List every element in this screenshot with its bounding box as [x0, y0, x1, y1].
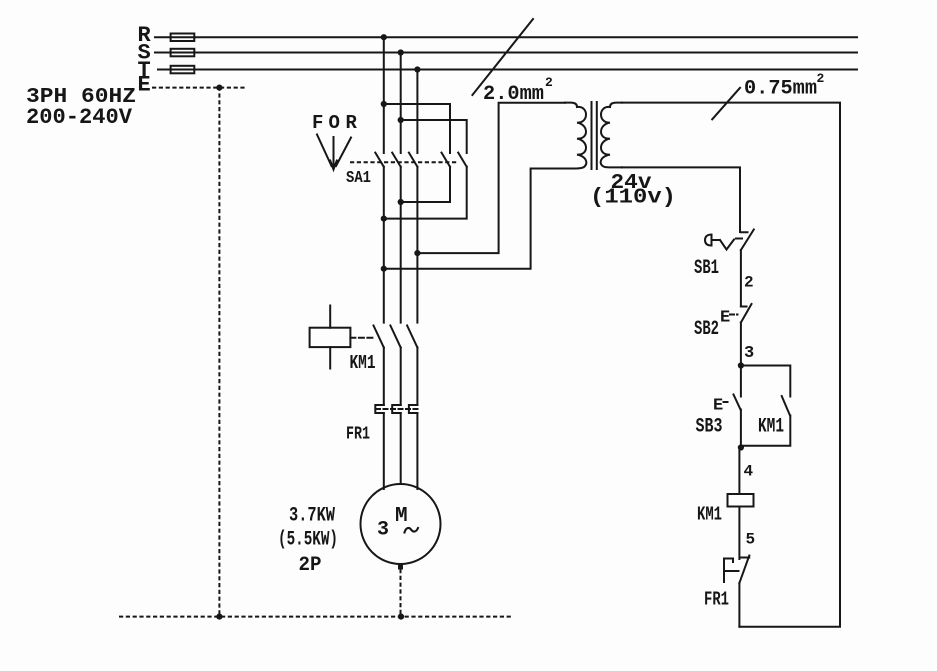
transformer T1 primary winding: [565, 103, 586, 169]
wire FR1 to motor: [384, 413, 418, 489]
contactor KM1 coil box: [310, 328, 351, 347]
wire secondary top to right bus: [622, 103, 840, 627]
contactor KM1 main contact 2: [390, 326, 400, 348]
wire SB2 to node 3: [740, 323, 742, 367]
svg-text:FR1: FR1: [346, 425, 370, 445]
wire rail S: [155, 52, 857, 54]
thermal contact FR1 actuator: [724, 559, 739, 583]
label 2.0mm2 leader: [472, 19, 533, 95]
wire FR1 to bottom: [738, 583, 740, 627]
selector arrow SA1: [317, 135, 351, 170]
svg-text:SB1: SB1: [694, 257, 719, 280]
svg-text:2: 2: [817, 71, 825, 86]
svg-text:SB3: SB3: [696, 416, 723, 439]
contactor KM1 coil lead bottom: [329, 347, 331, 368]
wire phase S drop upper: [400, 53, 402, 154]
svg-text:2: 2: [545, 75, 553, 90]
node S tap: [398, 49, 404, 55]
wire motor earth dotted: [400, 570, 402, 617]
switch SA1 link dotted: [351, 161, 456, 163]
label 0.75mm2 leader: [712, 88, 740, 120]
transformer T1 core: [592, 102, 597, 169]
contactor KM1 link dashed: [350, 337, 373, 339]
pushbutton SB1 actuator V: [720, 239, 742, 250]
node 3 junction: [738, 362, 744, 368]
node T tap: [414, 66, 420, 72]
wire rail T: [158, 69, 857, 71]
fuse FU3: [171, 66, 195, 74]
svg-text:(110v): (110v): [590, 187, 676, 210]
motor M1 circle: [361, 484, 441, 564]
wire phases KM1 to FR1: [384, 348, 418, 406]
node earth bus left: [216, 614, 222, 620]
coil KM1: [728, 494, 754, 507]
wire phase S drop lower: [400, 167, 402, 323]
node 4 junction: [738, 444, 744, 450]
node R tap: [381, 34, 387, 40]
node pole4-S junction: [398, 199, 404, 205]
wire SA1 crossover A: [384, 104, 450, 153]
wire SA1 crossover B: [401, 120, 467, 153]
switch SA1 pole 1 blade: [375, 153, 384, 167]
switch SA1 pole 3 blade: [409, 153, 418, 167]
node T-primary junction: [414, 250, 420, 256]
svg-text:KM1: KM1: [350, 352, 376, 374]
svg-text:KM1: KM1: [697, 504, 722, 526]
svg-text:3: 3: [744, 344, 754, 363]
pushbutton SB1 NC contact: [741, 230, 754, 251]
thermal element FR1 phase1: [375, 405, 384, 413]
pushbutton SB3 NO contact blade: [734, 395, 741, 410]
wire SB1 to SB2: [740, 250, 742, 307]
wire coil to FR1: [738, 507, 740, 560]
svg-text:5: 5: [746, 531, 756, 549]
wire secondary bottom to control: [622, 167, 740, 232]
svg-text:FR1: FR1: [704, 589, 729, 611]
svg-text:E: E: [713, 397, 723, 416]
pushbutton SB2 NC contact: [741, 304, 752, 323]
wire transformer primary top feed: [417, 103, 565, 253]
wire SB3 upper: [740, 366, 742, 397]
pushbutton SB1 mushroom head: [705, 235, 712, 246]
label ~: [405, 528, 419, 533]
fuse FU2: [171, 49, 195, 57]
contactor KM1 coil lead top: [329, 306, 331, 328]
node B: [398, 117, 404, 123]
svg-text:0.75mm: 0.75mm: [744, 78, 817, 101]
wire KM1 aux branch bottom: [741, 416, 790, 446]
contactor KM1 main contact 1: [374, 326, 384, 348]
svg-text:(5.5KW): (5.5KW): [278, 529, 338, 552]
svg-text:4: 4: [744, 463, 754, 481]
wire phase R drop upper: [383, 37, 385, 153]
svg-text:2P: 2P: [299, 554, 322, 577]
switch SA1 pole 4 blade: [442, 153, 451, 167]
node pole5-R junction: [381, 216, 387, 222]
thermal element FR1 phase3: [409, 405, 418, 413]
svg-text:2: 2: [744, 274, 754, 292]
wire transformer primary bottom feed: [384, 169, 565, 269]
wire node4 to coil: [738, 448, 740, 495]
wire earth dotted vertical: [218, 88, 220, 617]
svg-text:200-240V: 200-240V: [26, 105, 133, 130]
svg-text:SB2: SB2: [694, 318, 719, 341]
contact KM1 aux blade: [782, 396, 790, 416]
svg-text:M: M: [395, 505, 408, 528]
svg-text:R: R: [346, 112, 358, 134]
motor earth stub: [398, 565, 403, 570]
svg-text:3.7KW: 3.7KW: [289, 505, 335, 528]
svg-text:3: 3: [377, 519, 389, 542]
contactor KM1 main contact 3: [407, 326, 417, 348]
switch SA1 pole 5 blade: [458, 153, 467, 167]
switch SA1 pole 2 blade: [392, 153, 401, 167]
wire SB3 lower: [740, 410, 742, 448]
wire phase T drop upper: [416, 70, 418, 154]
svg-text:2.0mm: 2.0mm: [483, 83, 544, 106]
svg-text:SA1: SA1: [346, 169, 371, 188]
node A: [381, 101, 387, 107]
thermal element FR1 phase2: [392, 405, 401, 413]
wire KM1 aux branch top: [741, 366, 790, 397]
svg-text:F: F: [312, 112, 323, 134]
wire phase T drop lower: [416, 167, 418, 323]
svg-text:E: E: [138, 73, 151, 98]
thermal FR1 link dashed: [376, 408, 419, 410]
transformer T1 secondary winding: [601, 103, 622, 168]
wire pole4 return: [401, 167, 450, 202]
wire rail R: [155, 36, 857, 38]
wire earth bus dotted: [120, 616, 514, 618]
wire phase R drop lower: [383, 167, 385, 323]
fuse FU1: [171, 34, 195, 42]
thermal contact FR1 NC blade: [739, 556, 749, 584]
svg-text:KM1: KM1: [758, 416, 784, 439]
wire pole5 return: [384, 167, 467, 219]
node R-primary junction: [381, 266, 387, 272]
node earth tap: [216, 85, 222, 91]
svg-text:E: E: [720, 309, 730, 328]
wire rail E dotted: [153, 87, 246, 89]
node earth bus motor: [398, 614, 404, 620]
svg-text:O: O: [329, 112, 340, 134]
